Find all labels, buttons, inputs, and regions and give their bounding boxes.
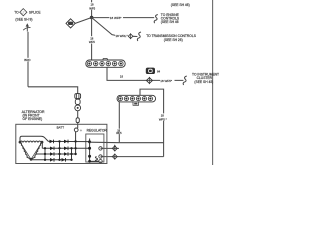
field winding coil	[95, 157, 98, 162]
wire label 18 WF5 (mid)	[89, 36, 96, 44]
svg-text:WF5 *: WF5 *	[159, 117, 168, 121]
alternator box	[16, 124, 107, 163]
connector C2 (6-way strip)	[117, 95, 156, 105]
wire to engine controls	[92, 17, 155, 19]
wire into alternator	[77, 111, 79, 118]
svg-text:(SEE SH 46): (SEE SH 46)	[171, 3, 190, 7]
rectifier rails	[59, 141, 61, 159]
wire from C1 to instrument cluster	[107, 67, 183, 80]
svg-text:18: 18	[120, 74, 124, 78]
svg-text:WF5: WF5	[116, 131, 122, 135]
svg-text:TO: TO	[14, 11, 19, 15]
wire to transmission controls (diagonal down-right)	[92, 18, 128, 36]
wire BRD (left vertical)	[27, 32, 29, 87]
connector C1 (6-way strip)	[86, 58, 125, 67]
svg-text:(SEE SH 9): (SEE SH 9)	[15, 17, 32, 21]
break squiggle (engine controls)	[154, 15, 158, 24]
regulator terminal circles	[99, 147, 102, 150]
break squiggle (cluster)	[183, 76, 187, 85]
ground icon G2	[146, 68, 161, 74]
in-line connector (BATT feed)	[75, 94, 81, 105]
rectifier anode rail	[44, 148, 46, 160]
svg-text:(SEE SH 45): (SEE SH 45)	[194, 80, 213, 84]
in-line connector diamond (cluster wire)	[146, 77, 152, 84]
wire C2 up and over to field (V2)	[140, 89, 164, 157]
in-line connector diamond (field 2)	[112, 154, 117, 160]
wire label 18 WRL	[115, 34, 126, 38]
wire from top edge (center)	[91, 0, 93, 18]
node sense	[88, 147, 91, 150]
wire C2 down (V1)	[118, 102, 120, 143]
wire label 18 WF5	[109, 15, 123, 20]
node field	[88, 155, 91, 158]
svg-text:+: +	[80, 128, 83, 133]
rectifier row A	[48, 140, 89, 144]
svg-text:OF ENGINE): OF ENGINE)	[23, 117, 43, 121]
wire label WF5	[160, 78, 175, 83]
wire junction to connector C1	[91, 18, 93, 61]
in-line connector diamond (transmission wire)	[128, 33, 133, 39]
wire label 18 WF5 (V1)	[116, 128, 123, 135]
junction node	[90, 16, 94, 20]
wire B+ to H-top	[90, 141, 120, 144]
regulator bottom link	[90, 160, 99, 162]
stator delta winding	[19, 136, 49, 160]
wire label 18 WF5 (top)	[89, 2, 96, 10]
svg-text:(SEE SH 26): (SEE SH 26)	[164, 38, 183, 42]
svg-text:REGULATOR: REGULATOR	[87, 129, 108, 133]
rectifier row B	[42, 147, 89, 151]
svg-text:18 WF5*: 18 WF5*	[160, 79, 173, 83]
wire bend to alternator BATT	[28, 87, 78, 94]
svg-text:(SEE SH 46: (SEE SH 46	[161, 20, 179, 24]
BATT stud terminal	[74, 128, 78, 132]
svg-text:64: 64	[157, 69, 161, 73]
svg-text:BATT: BATT	[57, 126, 65, 130]
rectifier junction dots	[58, 140, 60, 142]
rectifier row D	[31, 158, 72, 162]
svg-text:BRD: BRD	[24, 58, 31, 62]
svg-text:18 WRL: 18 WRL	[116, 34, 127, 38]
regulator input rail	[89, 139, 91, 162]
terminal pill	[76, 118, 79, 123]
wire label BRD	[24, 58, 32, 62]
page border line	[212, 0, 214, 165]
stator phase wires	[41, 142, 43, 148]
splice S2 diamond	[66, 19, 75, 28]
break squiggle (transmission)	[137, 32, 141, 41]
wire label 18	[120, 74, 127, 78]
eyelet terminal	[75, 105, 81, 111]
svg-text:WF5: WF5	[89, 7, 95, 11]
arrow on H-mid	[113, 144, 116, 147]
splice L7 symbol (top-left)	[20, 9, 27, 16]
in-line connector diamond (field 1)	[112, 145, 117, 151]
wire H-bot	[101, 156, 164, 158]
svg-text:WF5: WF5	[89, 40, 95, 44]
regulator box	[86, 134, 104, 162]
svg-text:SPLICE: SPLICE	[29, 11, 42, 15]
rectifier row C	[47, 152, 76, 156]
wire label 18 WF5 (V2)	[159, 113, 170, 121]
svg-text:18 WF5*: 18 WF5*	[110, 16, 123, 20]
wire H-mid	[101, 147, 120, 149]
off-page arrow symbol	[23, 23, 30, 31]
wire to splice S2 (diagonal down-left)	[75, 18, 91, 24]
node B+	[88, 140, 91, 143]
wire H-top	[119, 142, 163, 144]
